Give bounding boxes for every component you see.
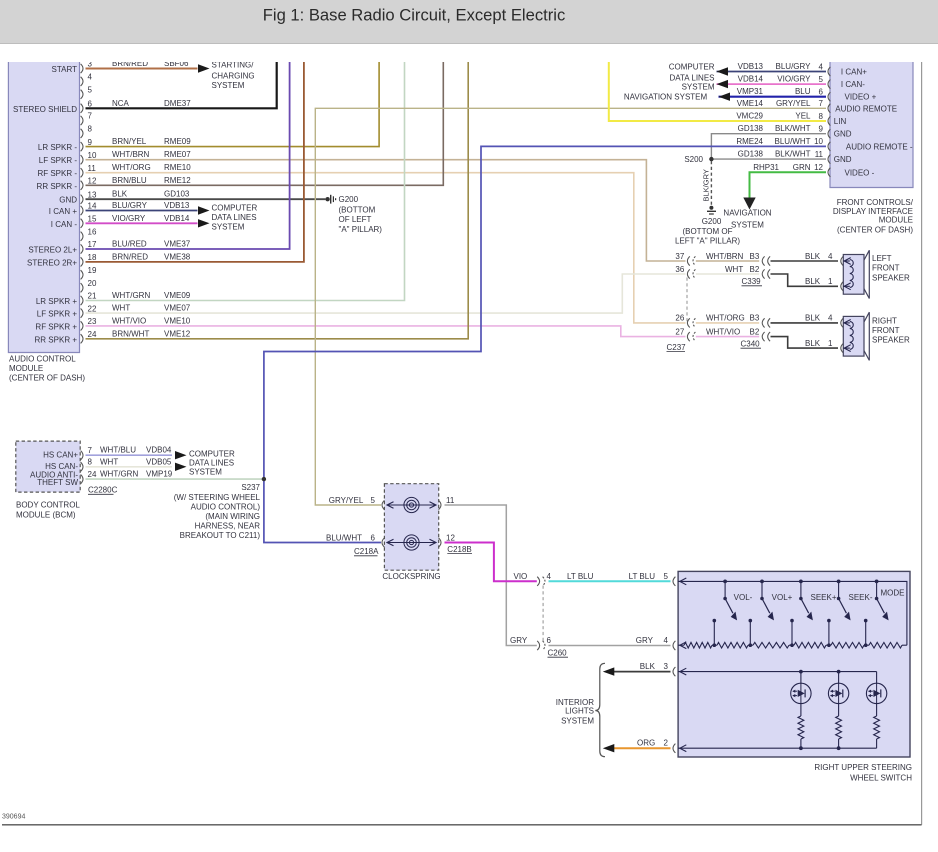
svg-text:(CENTER OF DASH): (CENTER OF DASH) — [9, 374, 85, 383]
pin 20 audio control module — [81, 283, 83, 292]
audio control module U1 (center of dash) — [8, 62, 79, 353]
led D3 resistor — [876, 704, 878, 716]
svg-text:RF SPKR +: RF SPKR + — [35, 322, 77, 331]
svg-text:MODULE (BCM): MODULE (BCM) — [16, 510, 76, 519]
led D2 — [828, 683, 848, 703]
svg-text:23: 23 — [88, 317, 97, 326]
wire BRN/RED SBF06 pin 3 — [86, 68, 198, 70]
svg-text:C2280C: C2280C — [88, 486, 118, 495]
wire BRN/RED VME38 pin 18 — [86, 62, 304, 262]
svg-text:RF SPKR -: RF SPKR - — [37, 169, 77, 178]
svg-text:C218B: C218B — [447, 545, 471, 554]
svg-text:BRN/BLU: BRN/BLU — [112, 176, 147, 185]
switch VOL+ contact post — [749, 619, 753, 623]
pin 23 audio control module — [81, 321, 83, 330]
svg-text:SYSTEM: SYSTEM — [212, 222, 245, 231]
front controls display interface module U2 (center of dash) — [830, 62, 913, 188]
svg-text:BLK: BLK — [805, 339, 821, 348]
svg-text:17: 17 — [88, 240, 97, 249]
svg-text:390694: 390694 — [2, 814, 25, 821]
led D1 resistor — [800, 704, 802, 716]
svg-text:21: 21 — [88, 292, 97, 301]
pin 19 audio control module — [81, 270, 83, 279]
wire NCA DME37 pin 6 stereo shield — [86, 62, 277, 108]
pin 6 audio control module — [81, 104, 83, 113]
svg-text:(BOTTOM OF: (BOTTOM OF — [682, 227, 732, 236]
right front speaker connector pin 4 — [841, 318, 843, 327]
wire BLK right front speaker pin 4 — [771, 322, 839, 324]
svg-text:8: 8 — [819, 112, 824, 121]
svg-text:19: 19 — [88, 266, 97, 275]
svg-text:COMPUTER: COMPUTER — [212, 203, 258, 212]
pin 5 audio control module — [81, 90, 83, 99]
svg-text:3: 3 — [664, 662, 669, 671]
svg-text:LT BLU: LT BLU — [567, 572, 594, 581]
connector C260 pin 6 row — [537, 641, 539, 650]
steering wheel switch connector pin 3 — [673, 667, 675, 676]
svg-text:B2: B2 — [750, 265, 760, 274]
svg-text:GRY/YEL: GRY/YEL — [329, 496, 364, 505]
wire GD138 BLK/WHT module pin 9 to splice S200 — [711, 134, 826, 159]
svg-text:G200: G200 — [702, 217, 722, 226]
svg-text:FRONT: FRONT — [872, 326, 900, 335]
svg-text:SPEAKER: SPEAKER — [872, 273, 910, 282]
svg-text:C340: C340 — [741, 339, 761, 348]
svg-text:MODULE: MODULE — [879, 215, 913, 224]
svg-text:BLK: BLK — [640, 662, 656, 671]
svg-text:VDB13: VDB13 — [164, 201, 190, 210]
svg-text:VDB14: VDB14 — [164, 214, 190, 223]
svg-text:GRY: GRY — [636, 636, 654, 645]
crop cover top — [0, 44, 938, 62]
svg-text:37: 37 — [675, 252, 684, 261]
svg-text:6: 6 — [88, 100, 93, 109]
pin 17 audio control module — [81, 244, 83, 253]
svg-text:27: 27 — [675, 327, 684, 336]
wire WHT VME07 pin 22 to left front speaker — [86, 274, 686, 313]
pin 18 audio control module — [81, 257, 83, 266]
svg-text:NAVIGATION: NAVIGATION — [723, 208, 771, 217]
svg-text:I CAN -: I CAN - — [51, 220, 78, 229]
svg-text:VDB14: VDB14 — [738, 75, 764, 84]
svg-text:RME24: RME24 — [736, 137, 763, 146]
arrow to starting charging system — [198, 64, 210, 72]
svg-text:AUDIO CONTROL: AUDIO CONTROL — [9, 355, 76, 364]
svg-text:I CAN +: I CAN + — [49, 207, 78, 216]
svg-text:COMPUTER: COMPUTER — [669, 63, 715, 72]
pin 27 connector C237 right front speaker — [687, 332, 689, 341]
svg-text:STEREO 2L+: STEREO 2L+ — [28, 246, 77, 255]
steering wheel switch connector pin 2 — [673, 744, 675, 753]
svg-text:10: 10 — [88, 151, 97, 160]
wire VIO/GRY VDB14 pin 15 — [86, 222, 198, 224]
svg-text:SYSTEM: SYSTEM — [682, 82, 715, 91]
svg-text:"A" PILLAR): "A" PILLAR) — [339, 225, 383, 234]
pin 15 audio control module — [81, 219, 83, 228]
svg-text:WHT: WHT — [112, 304, 130, 313]
wire VMP31 BLU module pin 6 — [719, 96, 827, 98]
svg-text:SYSTEM: SYSTEM — [189, 468, 222, 477]
left front speaker connector pin 1 — [841, 282, 843, 291]
wire RME24 BLU/WHT module pin 10 to clockspring pin 6 — [264, 146, 826, 542]
svg-text:RIGHT: RIGHT — [872, 316, 897, 325]
arrow to computer data lines pin 14 — [198, 206, 210, 214]
left front speaker SPK1 — [843, 255, 864, 295]
svg-text:THEFT SW: THEFT SW — [37, 478, 78, 487]
connector C339 — [762, 256, 764, 265]
switch VOL- contact post — [713, 619, 717, 623]
svg-text:9: 9 — [88, 138, 93, 147]
svg-text:5: 5 — [664, 572, 669, 581]
wire BLK GD103 pin 13 — [86, 198, 326, 200]
svg-text:NCA: NCA — [112, 99, 130, 108]
clockspring coil pin 5 to 11 — [388, 504, 435, 506]
wire VDB13 BLU/GRY module pin 4 — [717, 71, 827, 73]
svg-text:WHT: WHT — [100, 457, 118, 466]
switch SEEK- — [837, 580, 841, 584]
svg-text:AUDIO REMOTE: AUDIO REMOTE — [835, 104, 897, 113]
connector C237 dashed boundary — [686, 278, 688, 323]
arrow LT BLU rail — [680, 578, 687, 585]
svg-text:VOL-: VOL- — [734, 593, 753, 602]
wire VME14 GRY/YEL module pin 7 to clockspring pin 5 — [315, 108, 826, 505]
svg-text:VME38: VME38 — [164, 252, 191, 261]
switch VOL- — [723, 580, 727, 584]
svg-text:WHT/BRN: WHT/BRN — [112, 150, 150, 159]
arrow navigation system module pin 6 — [719, 93, 731, 101]
svg-text:5: 5 — [819, 75, 824, 84]
svg-text:RME09: RME09 — [164, 137, 191, 146]
wire BLK rail inside switch — [678, 671, 877, 673]
svg-text:C237: C237 — [667, 343, 687, 352]
svg-text:ORG: ORG — [637, 739, 655, 748]
arrow interior lights ORG — [603, 744, 615, 752]
steering wheel switch connector pin 4 — [673, 641, 675, 650]
svg-text:WHT/ORG: WHT/ORG — [706, 314, 745, 323]
wire GD138 BLK/WHT module pin 11 to splice S200 — [711, 158, 826, 160]
switch SEEK+ — [799, 580, 803, 584]
svg-text:RR SPKR +: RR SPKR + — [35, 335, 78, 344]
svg-text:VDB05: VDB05 — [146, 457, 172, 466]
svg-text:BLK: BLK — [805, 314, 821, 323]
svg-text:DATA LINES: DATA LINES — [669, 73, 714, 82]
pin 8 audio control module — [81, 129, 83, 138]
svg-text:BLK: BLK — [112, 190, 128, 199]
svg-text:LEFT "A" PILLAR): LEFT "A" PILLAR) — [675, 237, 740, 246]
wire WHT/ORG RME10 pin 11 to right front speaker — [86, 173, 686, 323]
pin 9 audio control module — [81, 142, 83, 151]
svg-text:5: 5 — [88, 86, 93, 95]
arrow interior lights BLK — [603, 667, 615, 675]
svg-text:WHT/BRN: WHT/BRN — [706, 252, 744, 261]
svg-text:12: 12 — [88, 177, 97, 186]
svg-text:GD138: GD138 — [738, 150, 764, 159]
wire BLK/GRY splice S200 to ground G200 — [710, 161, 712, 206]
svg-text:BLU/RED: BLU/RED — [112, 240, 147, 249]
svg-text:LF SPKR +: LF SPKR + — [37, 310, 78, 319]
wire WHT/BRN RME07 pin 10 to left front speaker — [86, 160, 686, 261]
svg-text:SYSTEM: SYSTEM — [561, 716, 594, 725]
svg-text:4: 4 — [819, 62, 824, 71]
pin 11 front controls module — [828, 155, 830, 164]
svg-text:VMP31: VMP31 — [737, 87, 764, 96]
svg-text:WHT/VIO: WHT/VIO — [112, 316, 146, 325]
right front speaker SPK2 — [843, 316, 864, 356]
svg-text:VME10: VME10 — [164, 316, 191, 325]
svg-text:7: 7 — [88, 446, 93, 455]
arrow computer data lines module pin 5 — [717, 80, 729, 88]
wire WHT/BRN C237 to C339 pin 37 — [696, 260, 759, 262]
svg-text:WHEEL SWITCH: WHEEL SWITCH — [850, 774, 912, 783]
connector C260 dashed boundary — [542, 586, 544, 642]
svg-text:BRN/RED: BRN/RED — [112, 252, 148, 261]
svg-text:(BOTTOM: (BOTTOM — [339, 205, 376, 214]
pin 10 front controls module — [828, 142, 830, 151]
wire LT BLU to steering wheel switch pin 5 — [549, 580, 671, 582]
wire WHT/VIO VME10 pin 23 to right front speaker — [86, 326, 686, 337]
svg-text:LEFT: LEFT — [872, 254, 892, 263]
svg-text:GND: GND — [834, 130, 852, 139]
svg-text:S200: S200 — [684, 155, 703, 164]
svg-text:OF LEFT: OF LEFT — [339, 215, 372, 224]
svg-text:7: 7 — [88, 112, 93, 121]
svg-text:GD138: GD138 — [738, 124, 764, 133]
svg-text:WHT/BLU: WHT/BLU — [100, 446, 136, 455]
wire BRN/YEL RME09 pin 9 — [86, 62, 380, 147]
svg-text:AUDIO REMOTE -: AUDIO REMOTE - — [846, 142, 913, 151]
pin 6 front controls module — [828, 92, 830, 101]
page border right — [921, 62, 923, 825]
svg-text:VME12: VME12 — [164, 329, 191, 338]
svg-text:24: 24 — [88, 330, 97, 339]
svg-text:GRY/YEL: GRY/YEL — [776, 99, 811, 108]
wire BRN/BLU RME12 pin 12 — [86, 62, 444, 185]
svg-text:BLU: BLU — [795, 87, 811, 96]
svg-text:24: 24 — [88, 470, 97, 479]
arrow navigation system pin 12 — [743, 198, 755, 210]
svg-text:16: 16 — [88, 227, 97, 236]
pin 21 audio control module — [81, 296, 83, 305]
svg-text:11: 11 — [88, 164, 97, 173]
svg-text:FRONT: FRONT — [872, 264, 900, 273]
svg-text:BRN/YEL: BRN/YEL — [112, 137, 147, 146]
arrow to computer data lines pin 15 — [198, 219, 210, 227]
pin 14 audio control module — [81, 206, 83, 215]
svg-text:NAVIGATION SYSTEM: NAVIGATION SYSTEM — [624, 92, 708, 101]
pin 4 audio control module — [81, 77, 83, 86]
clockspring pin 11 — [439, 500, 441, 509]
svg-text:START: START — [52, 65, 78, 74]
splice S200 — [709, 157, 713, 161]
svg-text:YEL: YEL — [795, 112, 811, 121]
svg-text:DME37: DME37 — [164, 99, 191, 108]
wire BLK right front speaker pin 1 — [771, 337, 839, 349]
svg-text:VIDEO +: VIDEO + — [845, 93, 877, 102]
svg-text:B2: B2 — [750, 327, 760, 336]
svg-text:LR SPKR -: LR SPKR - — [38, 143, 77, 152]
wire BRN/WHT VME12 pin 24 — [86, 62, 469, 339]
svg-text:I CAN-: I CAN- — [841, 80, 865, 89]
wire BLU/GRY VDB13 pin 14 — [86, 210, 198, 212]
right front speaker connector pin 1 — [841, 344, 843, 353]
svg-text:AUDIO CONTROL): AUDIO CONTROL) — [191, 502, 261, 511]
svg-text:7: 7 — [819, 99, 824, 108]
wire LT BLU rail inside switch — [678, 581, 907, 645]
pin 8 BCM — [81, 462, 83, 471]
svg-text:BLK: BLK — [805, 277, 821, 286]
svg-text:6: 6 — [819, 88, 824, 97]
svg-text:8: 8 — [88, 125, 93, 134]
svg-text:C218A: C218A — [354, 547, 379, 556]
svg-text:B3: B3 — [750, 314, 760, 323]
svg-text:VME14: VME14 — [737, 99, 764, 108]
led D1 — [791, 683, 811, 703]
svg-text:WHT/ORG: WHT/ORG — [112, 163, 151, 172]
page bottom rule — [2, 824, 922, 826]
svg-text:1: 1 — [828, 339, 833, 348]
connector C340 — [762, 318, 764, 327]
wire WHT VDB05 BCM pin 8 — [86, 466, 173, 468]
svg-text:5: 5 — [371, 496, 376, 505]
switch VOL+ — [760, 580, 764, 584]
wire GRY clockspring pin 11 to connector C260 — [445, 505, 537, 646]
svg-text:BLU/WHT: BLU/WHT — [775, 137, 811, 146]
svg-text:MODULE: MODULE — [9, 364, 43, 373]
clockspring pin 12 — [439, 538, 441, 547]
svg-text:S237: S237 — [241, 483, 260, 492]
svg-text:10: 10 — [814, 137, 823, 146]
svg-text:FRONT CONTROLS/: FRONT CONTROLS/ — [837, 198, 914, 207]
arrow computer data lines module pin 4 — [717, 67, 729, 75]
svg-text:4: 4 — [828, 252, 833, 261]
ground G200 left (bottom of left A pillar) — [325, 197, 329, 201]
svg-text:STEREO SHIELD: STEREO SHIELD — [13, 105, 77, 114]
svg-text:VIO: VIO — [514, 572, 528, 581]
svg-text:LIGHTS: LIGHTS — [565, 707, 594, 716]
svg-text:GND: GND — [834, 155, 852, 164]
svg-text:STEREO 2R+: STEREO 2R+ — [27, 258, 77, 267]
svg-text:GRY: GRY — [510, 636, 528, 645]
svg-text:CHARGING: CHARGING — [212, 71, 255, 80]
svg-text:14: 14 — [88, 202, 97, 211]
switch MODE — [875, 580, 879, 584]
wire WHT/BLU VDB04 BCM pin 7 — [86, 454, 173, 456]
wire RHP31 GRN module pin 12 — [750, 172, 827, 197]
pin 24 audio control module — [81, 334, 83, 343]
pin 8 front controls module — [828, 116, 830, 125]
svg-text:BLK/WHT: BLK/WHT — [775, 150, 811, 159]
clockspring pin 6 — [382, 538, 384, 547]
pin 4 front controls module — [828, 67, 830, 76]
title bar — [0, 0, 938, 43]
svg-text:CLOCKSPRING: CLOCKSPRING — [382, 572, 440, 581]
svg-text:VDB13: VDB13 — [738, 62, 764, 71]
led D3 — [866, 683, 886, 703]
clockspring pin 5 — [382, 500, 384, 509]
svg-text:15: 15 — [88, 215, 97, 224]
arrow computer data lines BCM pin 7 — [175, 451, 187, 459]
svg-text:26: 26 — [675, 314, 684, 323]
body control module U3 (BCM) — [16, 441, 80, 492]
clockspring U4 — [384, 484, 438, 571]
left front speaker connector pin 4 — [841, 256, 843, 265]
wire VMC29 YEL module pin 8 — [609, 62, 826, 121]
resistor ladder GRY row — [678, 644, 684, 646]
svg-text:HARNESS, NEAR: HARNESS, NEAR — [195, 521, 261, 530]
svg-text:I CAN+: I CAN+ — [841, 68, 867, 77]
svg-text:4: 4 — [547, 572, 552, 581]
wire VDB14 VIO/GRY module pin 5 — [717, 83, 827, 85]
svg-text:SYSTEM: SYSTEM — [212, 81, 245, 90]
brace interior lights system — [595, 663, 605, 756]
pin 12 audio control module — [81, 181, 83, 190]
svg-text:BLU/GRY: BLU/GRY — [112, 201, 148, 210]
pin 16 audio control module — [81, 232, 83, 241]
svg-text:BLK/GRY: BLK/GRY — [702, 169, 711, 201]
wire WHT/GRN VMP19 BCM pin 24 to splice S237 — [86, 478, 264, 480]
svg-text:LT BLU: LT BLU — [629, 572, 656, 581]
svg-text:(CENTER OF DASH): (CENTER OF DASH) — [837, 225, 913, 234]
pin 7 front controls module — [828, 104, 830, 113]
svg-text:1: 1 — [828, 277, 833, 286]
svg-text:DATA LINES: DATA LINES — [189, 458, 234, 467]
pin 24 BCM — [81, 475, 83, 484]
switch SEEK+ contact post — [790, 619, 794, 623]
splice S237 — [262, 477, 266, 481]
pin 3 audio control module — [81, 64, 83, 73]
connector C260 pin 4 row — [537, 577, 539, 586]
svg-text:18: 18 — [88, 253, 97, 262]
svg-text:22: 22 — [88, 304, 97, 313]
svg-text:COMPUTER: COMPUTER — [189, 449, 235, 458]
wire VIO clockspring pin 12 to connector C260 — [445, 543, 537, 582]
svg-text:(MAIN WIRING: (MAIN WIRING — [205, 512, 260, 521]
svg-text:VIDEO -: VIDEO - — [845, 168, 875, 177]
svg-text:4: 4 — [664, 636, 669, 645]
svg-text:WHT/GRN: WHT/GRN — [112, 291, 150, 300]
pin 10 audio control module — [81, 155, 83, 164]
pin 13 audio control module — [81, 195, 83, 204]
svg-text:MODE: MODE — [881, 589, 905, 598]
wire BLK left front speaker pin 4 — [771, 260, 839, 262]
wire WHT/GRN VME09 pin 21 — [86, 62, 405, 301]
arrow ORG rail — [680, 745, 687, 752]
svg-text:B3: B3 — [750, 252, 760, 261]
svg-text:BLU/WHT: BLU/WHT — [326, 533, 362, 542]
svg-text:SEEK-: SEEK- — [848, 593, 872, 602]
pin 37 connector C237 left front speaker — [687, 256, 689, 265]
arrow BLK rail — [680, 668, 687, 675]
svg-text:BLK: BLK — [805, 252, 821, 261]
svg-text:GRN: GRN — [793, 163, 811, 172]
svg-text:VOL+: VOL+ — [772, 593, 793, 602]
wire ORG rail inside switch — [678, 747, 877, 749]
svg-text:INTERIOR: INTERIOR — [556, 698, 594, 707]
svg-text:BLU/GRY: BLU/GRY — [776, 62, 812, 71]
svg-text:VME37: VME37 — [164, 240, 191, 249]
svg-text:G200: G200 — [339, 195, 359, 204]
svg-text:GD103: GD103 — [164, 190, 190, 199]
svg-text:LR SPKR +: LR SPKR + — [36, 297, 77, 306]
pin 12 front controls module — [828, 168, 830, 177]
svg-text:RR SPKR -: RR SPKR - — [37, 182, 78, 191]
wire WHT/ORG C237 to C340 pin 26 — [696, 322, 759, 324]
svg-text:8: 8 — [88, 458, 93, 467]
wire BLK steering wheel switch pin 3 to interior lights system — [612, 671, 671, 673]
wire WHT/VIO C237 to C340 pin 27 — [696, 336, 759, 338]
steering wheel switch connector pin 5 — [673, 577, 675, 586]
svg-text:RHP31: RHP31 — [753, 163, 779, 172]
